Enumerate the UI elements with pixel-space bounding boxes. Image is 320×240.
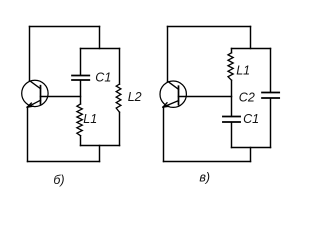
wire top stub to tank (left) bbox=[99, 27, 101, 49]
wire C1 to base tap to L1 (left) bbox=[80, 80, 82, 104]
svg-text:L1: L1 bbox=[236, 63, 250, 77]
svg-text:в): в) bbox=[199, 171, 210, 185]
inductor L2 (left circuit) bbox=[116, 84, 121, 112]
wire tank top rail (left) bbox=[81, 48, 120, 50]
wire tank bottom rail (right) bbox=[232, 147, 271, 149]
wire emitter lead (right) bbox=[163, 107, 165, 161]
wire tank bottom rail (left) bbox=[81, 145, 120, 147]
wire bottom stub (left) bbox=[99, 146, 101, 162]
wire C1 top lead (left) bbox=[80, 49, 82, 76]
wire collector lead (left) bbox=[29, 27, 31, 81]
wire C2 bottom lead (right) bbox=[270, 98, 272, 147]
svg-text:C1: C1 bbox=[95, 71, 111, 85]
capacitor C1 (right circuit) bbox=[223, 117, 240, 123]
wire collector lead (right) bbox=[167, 27, 169, 82]
wire L2 top lead (left) bbox=[119, 49, 121, 85]
inductor L1 (right circuit) bbox=[228, 53, 233, 80]
svg-text:б): б) bbox=[53, 173, 64, 187]
capacitor C2 (right circuit) bbox=[262, 93, 279, 99]
wire base lead (left) bbox=[41, 96, 81, 98]
wire L1 bottom lead (left) bbox=[80, 136, 82, 146]
wire emitter lead (left) bbox=[27, 107, 29, 161]
svg-text:C2: C2 bbox=[239, 90, 255, 104]
wire top stub to tank (right) bbox=[250, 27, 252, 49]
svg-text:C1: C1 bbox=[243, 112, 259, 126]
wire L2 bottom lead (left) bbox=[119, 112, 121, 145]
svg-text:L2: L2 bbox=[128, 90, 142, 104]
wire tank top rail (right) bbox=[232, 48, 271, 50]
wire C2 top lead (right) bbox=[270, 49, 272, 93]
transistor VT1 (right circuit) bbox=[160, 81, 186, 107]
wire top rail (left) bbox=[30, 26, 100, 28]
wire L1 to base tap to C1 (right) bbox=[231, 80, 233, 116]
wire base lead (right) bbox=[179, 96, 232, 98]
capacitor C1 (left circuit) bbox=[72, 76, 89, 81]
wire C1 bottom lead (right) bbox=[231, 122, 233, 147]
transistor VT1 (left circuit) bbox=[22, 80, 48, 107]
wire bottom stub (right) bbox=[250, 148, 252, 162]
wire top rail (right) bbox=[168, 26, 251, 28]
wire bottom rail (left) bbox=[28, 161, 100, 163]
inductor L1 (left circuit) bbox=[77, 104, 82, 136]
svg-text:L1: L1 bbox=[83, 112, 97, 126]
wire L1 top lead (right) bbox=[231, 49, 233, 53]
wire bottom rail (right) bbox=[164, 161, 251, 163]
